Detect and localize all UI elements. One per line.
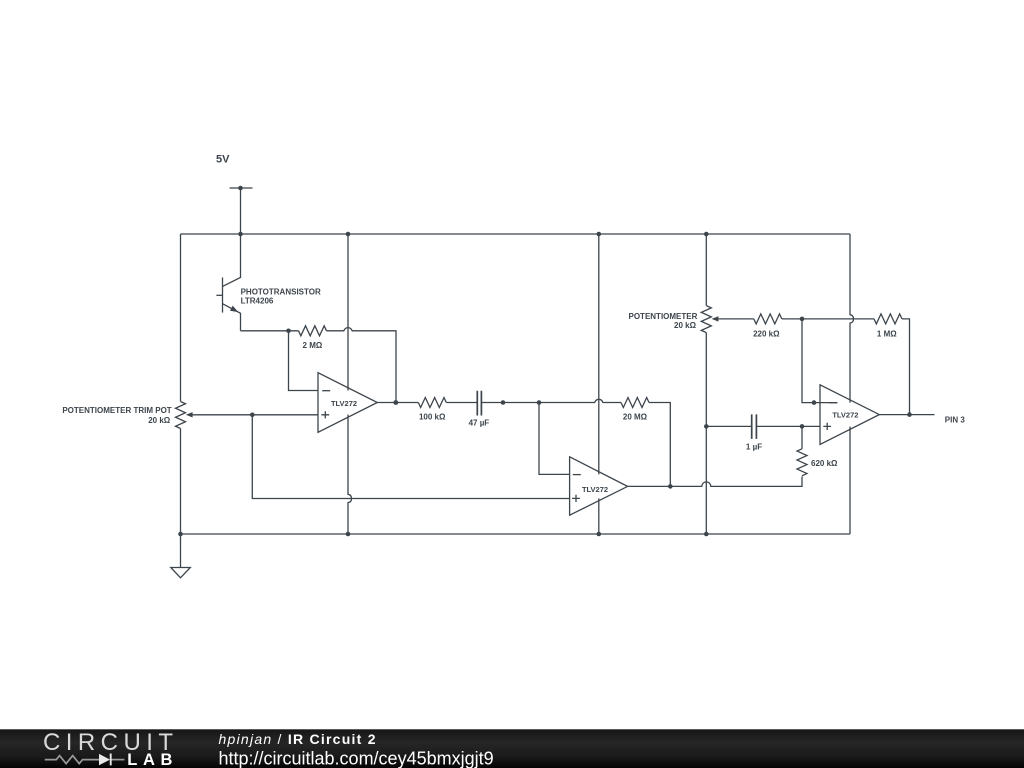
wire to op-amp2 inverting input (539, 403, 570, 475)
svg-text:TLV272: TLV272 (331, 399, 357, 408)
svg-text:LAB: LAB (127, 751, 178, 768)
wire 1M to output feedback (902, 319, 910, 415)
svg-text:POTENTIOMETER TRIM POT: POTENTIOMETER TRIM POT (62, 406, 171, 415)
wire op-amp2 output with hop over pot line (628, 477, 802, 487)
node pot line 1uF tap (704, 424, 709, 429)
wire 100k to cap (446, 402, 477, 404)
wire pot line to 1uF (706, 425, 751, 427)
resistor R2 100k (418, 398, 446, 408)
wire 220k junction to op-amp3 inverting (802, 319, 837, 403)
op-amp U3 TLV272 (820, 385, 879, 445)
node stage2 inverting tap (537, 400, 542, 405)
svg-text:620 kΩ: 620 kΩ (811, 459, 838, 468)
node 5V junction (238, 186, 243, 191)
power supply 5V V1 (230, 187, 253, 189)
op-amp U1 V- stub (348, 415, 352, 535)
svg-text:2 MΩ: 2 MΩ (303, 341, 323, 350)
node top rail at op-amp1 V+ (346, 232, 351, 237)
wire 2M to feedback corner with hop (327, 328, 397, 403)
op-amp U3 plus sign (823, 423, 831, 430)
phototransistor emitter arrow (230, 306, 238, 313)
wire pot wiper to 220k (718, 318, 754, 320)
svg-text:1 MΩ: 1 MΩ (877, 330, 897, 339)
op-amp U1 V+ stub (347, 234, 349, 391)
svg-text:20 kΩ: 20 kΩ (674, 321, 697, 330)
phototransistor base stub (216, 294, 222, 296)
svg-text:100 kΩ: 100 kΩ (419, 413, 446, 422)
potentiometer R4 wiper arrow (712, 316, 719, 321)
wire cap to stage2 with hop over op-amp2 V+ (481, 399, 621, 402)
op-amp U3 V+ stub / right rail upper (850, 234, 854, 403)
node bottom rail potentiometer (704, 532, 709, 537)
svg-text:PIN 3: PIN 3 (945, 415, 966, 424)
node 1uF 620k junction (800, 424, 805, 429)
node bottom rail left (178, 532, 183, 537)
resistor R7 220k (754, 314, 782, 324)
capacitor C2 1uF (752, 414, 757, 439)
svg-text:TLV272: TLV272 (582, 485, 608, 494)
resistor R8 1M (874, 314, 902, 324)
node output3 feedback (907, 412, 912, 417)
wire op-amp3 output to PIN 3 (879, 414, 934, 416)
logo resistor zigzag (45, 756, 125, 764)
wire ground stem (180, 534, 182, 568)
node op-amp2 output feedback (668, 484, 673, 489)
svg-text:http://circuitlab.com/cey45bmx: http://circuitlab.com/cey45bmxjgjt9 (219, 749, 494, 768)
node top rail at op-amp2 V+ (597, 232, 602, 237)
potentiometer R4 20k (701, 306, 711, 333)
wire left rail lower (180, 429, 182, 535)
svg-text:47 µF: 47 µF (469, 419, 490, 428)
svg-text:hpinjan / IR Circuit 2: hpinjan / IR Circuit 2 (219, 731, 377, 747)
op-amp U1 minus sign (322, 390, 330, 392)
resistor R5 620k (797, 449, 807, 476)
node top rail at potentiometer (704, 232, 709, 237)
op-amp U2 V+ stub (598, 234, 600, 474)
node feedback at output (394, 400, 399, 405)
wire top rail (181, 233, 851, 235)
potentiometer trim pot R6 20k (176, 402, 186, 429)
svg-text:PHOTOTRANSISTOR: PHOTOTRANSISTOR (241, 288, 321, 297)
logo diode cathode bar (110, 754, 112, 766)
resistor R1 2M (299, 326, 327, 336)
wire bottom rail (181, 533, 851, 535)
op-amp U1 plus sign (321, 411, 329, 418)
wire 220k to 1M with hop over op-amp3 V+ (782, 318, 874, 320)
svg-text:20 kΩ: 20 kΩ (148, 416, 171, 425)
phototransistor emitter (223, 304, 241, 331)
wire emitter to 2M resistor (241, 330, 299, 332)
node mid (501, 400, 506, 405)
wire 20M to op-amp2 output (649, 403, 670, 487)
svg-text:5V: 5V (216, 154, 230, 166)
ground symbol (171, 568, 191, 578)
node bottom rail op-amp2 V- (597, 532, 602, 537)
op-amp U3 minus sign (829, 402, 837, 404)
potentiometer R4 vertical line upper (705, 234, 707, 306)
wire 5V stem (240, 188, 242, 234)
node bottom rail op-amp1 V- (346, 532, 351, 537)
wire trim pot wiper to op-amp1 + (192, 414, 318, 416)
capacitor C1 47uF (477, 391, 481, 416)
potentiometer R4 line lower (705, 333, 707, 534)
trim pot wiper arrow (186, 412, 193, 417)
wire op-amp1 inverting input (289, 331, 319, 391)
wire 620k top to 1uF node (801, 426, 803, 448)
resistor R3 20M (621, 398, 649, 408)
svg-text:TLV272: TLV272 (832, 411, 858, 420)
wire op-amp1 + node down to op-amp2 + with hop (252, 415, 569, 499)
wire 1uF to op-amp3 + (756, 425, 820, 427)
op-amp U2 minus sign (573, 474, 581, 476)
node top rail at collector (238, 232, 243, 237)
node op-amp3 inverting pin (812, 400, 817, 405)
node 220k junction (800, 317, 805, 322)
op-amp U2 V- stub (598, 498, 600, 534)
op-amp U2 plus sign (572, 495, 580, 502)
node output1 (393, 400, 398, 405)
phototransistor Q1 LTR4206 collector wire (223, 234, 241, 286)
op-amp U3 V- stub / right rail lower (849, 427, 851, 534)
wire left rail upper (180, 234, 182, 402)
logo diode (99, 754, 110, 765)
svg-text:LTR4206: LTR4206 (241, 296, 274, 305)
svg-text:20 MΩ: 20 MΩ (623, 413, 648, 422)
wire op-amp1 output (377, 402, 418, 404)
phototransistor base bar (222, 278, 224, 313)
op-amp U2 TLV272 (570, 457, 628, 515)
node feedback tap (286, 329, 291, 334)
op-amp U1 TLV272 (318, 373, 377, 433)
svg-text:1 µF: 1 µF (746, 442, 762, 451)
svg-text:220 kΩ: 220 kΩ (753, 330, 780, 339)
svg-text:POTENTIOMETER: POTENTIOMETER (629, 312, 698, 321)
node wiper junction (250, 413, 255, 418)
